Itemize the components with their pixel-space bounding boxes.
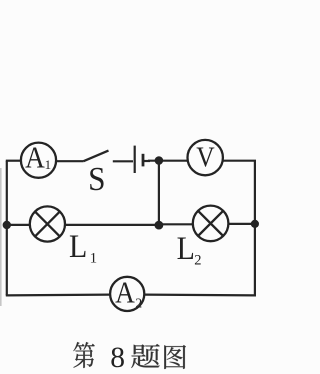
node junction battery/V/L2 branch bbox=[155, 156, 164, 165]
svg-text:A: A bbox=[25, 141, 45, 175]
svg-text:8: 8 bbox=[110, 342, 125, 374]
svg-text:2: 2 bbox=[135, 295, 142, 310]
wire center vertical bbox=[158, 161, 160, 226]
svg-text:L: L bbox=[177, 230, 195, 266]
svg-text:2: 2 bbox=[194, 252, 201, 268]
ammeter A2 bbox=[110, 276, 144, 311]
caption digit 8 bbox=[110, 342, 125, 374]
node junction center/L1/L2 bbox=[155, 221, 164, 230]
wire left to L1 bbox=[7, 224, 30, 226]
scan smudge left edge bbox=[0, 168, 2, 306]
battery lead wire bbox=[113, 160, 133, 162]
wire L1 to center junction bbox=[66, 224, 159, 226]
battery cell bbox=[135, 146, 150, 173]
ammeter A1 bbox=[21, 141, 56, 178]
label L2 bbox=[177, 230, 202, 268]
caption character 第 bbox=[73, 342, 94, 368]
label S bbox=[88, 161, 105, 198]
wire center junction to L2 bbox=[159, 223, 193, 225]
voltmeter V bbox=[188, 140, 223, 175]
node junction right/L2 bbox=[251, 220, 259, 228]
wire bottom-right horizontal bbox=[145, 294, 256, 297]
switch S blade bbox=[84, 151, 109, 162]
wire left vertical bbox=[6, 161, 8, 296]
svg-text:S: S bbox=[88, 161, 105, 198]
lamp L1 bbox=[30, 206, 65, 241]
svg-text:1: 1 bbox=[45, 157, 52, 172]
svg-text:A: A bbox=[115, 276, 135, 310]
caption character 图 bbox=[164, 345, 186, 369]
wire L2 to right junction bbox=[228, 223, 255, 225]
wire A1 to switch bbox=[56, 160, 83, 162]
lamp L2 bbox=[193, 206, 229, 242]
svg-text:L: L bbox=[69, 228, 87, 264]
svg-text:V: V bbox=[196, 141, 215, 173]
wire bottom-left horizontal bbox=[6, 294, 110, 297]
wire voltmeter to right corner bbox=[223, 160, 256, 162]
wire top-left horizontal bbox=[6, 160, 21, 162]
label L1 bbox=[69, 228, 97, 266]
wire right vertical bbox=[254, 161, 256, 296]
svg-text:1: 1 bbox=[90, 250, 98, 266]
node junction left branch bbox=[3, 221, 11, 229]
wire battery to voltmeter bbox=[148, 160, 187, 162]
caption character 题 bbox=[131, 344, 159, 368]
